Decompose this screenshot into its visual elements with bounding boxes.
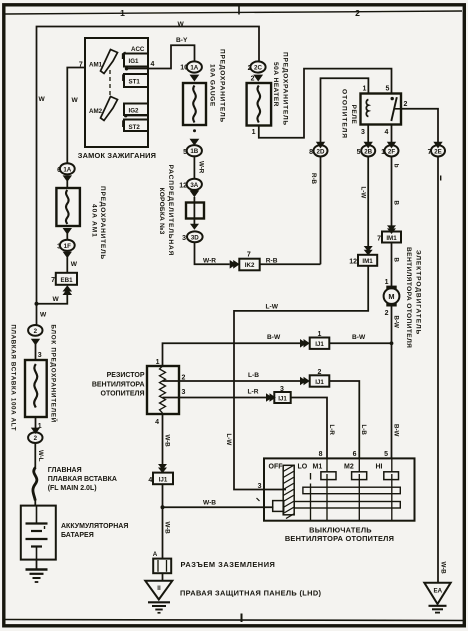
svg-text:1: 1 <box>156 359 160 366</box>
svg-text:3: 3 <box>182 235 186 242</box>
connector 1B oval <box>187 145 202 156</box>
battery box <box>21 506 56 560</box>
svg-text:2: 2 <box>385 310 389 317</box>
wire to ground II <box>162 573 164 581</box>
wire IM1 to motor <box>391 243 393 288</box>
arrow into IJ1 3 <box>266 393 272 402</box>
wire motor to junction <box>391 307 393 344</box>
wire FL to battery <box>34 499 36 506</box>
box ST1 <box>124 74 148 87</box>
connector 2F oval <box>385 145 399 156</box>
wire resistor pin 2 to IJ1 2 <box>163 380 301 382</box>
svg-text:6: 6 <box>353 451 357 458</box>
connector wedge below 2 upper <box>31 339 40 346</box>
wire resistor pin 1 to IJ1 1 <box>163 343 301 366</box>
fuse 50A HEATER box <box>247 83 272 126</box>
svg-text:ВЕНТИЛЯТОРА ОТОПИТЕЛЯ: ВЕНТИЛЯТОРА ОТОПИТЕЛЯ <box>285 534 394 543</box>
wire L-W 2B to IM1 <box>367 157 369 247</box>
svg-text:БЛОК ПРЕДОХРАНИТЕЛЕЙ: БЛОК ПРЕДОХРАНИТЕЛЕЙ <box>50 325 58 424</box>
relay contact <box>391 97 402 121</box>
svg-text:W: W <box>39 96 46 103</box>
svg-text:HI: HI <box>376 464 383 471</box>
grid tick top <box>238 4 240 15</box>
fuse 100A ALT box <box>25 360 47 417</box>
svg-text:W-B: W-B <box>163 522 170 535</box>
connector wedge above 2D <box>316 142 325 149</box>
svg-text:3: 3 <box>258 483 262 490</box>
junction connector IJ1 no3 <box>274 392 290 403</box>
wire 1B to 3A <box>193 156 195 179</box>
svg-text:L-R: L-R <box>328 425 335 436</box>
wire 1F to EB1 <box>66 257 68 273</box>
svg-text:2: 2 <box>404 101 408 108</box>
relay coil <box>366 100 368 117</box>
svg-text:1: 1 <box>120 8 125 18</box>
svg-text:R-B: R-B <box>310 173 317 185</box>
connector wedge below 3A <box>190 190 200 197</box>
connector 2C oval <box>250 61 265 72</box>
svg-text:ПЛАВКАЯ ВСТАВКА 100А ALT: ПЛАВКАЯ ВСТАВКА 100А ALT <box>10 325 17 432</box>
svg-text:12: 12 <box>349 259 357 266</box>
svg-text:ГЛАВНАЯ: ГЛАВНАЯ <box>48 467 82 474</box>
ignition mechanical link dashed <box>109 70 111 98</box>
svg-text:B-W: B-W <box>392 316 399 329</box>
contact dot IG1 <box>125 67 128 70</box>
svg-text:IJ1: IJ1 <box>278 395 287 402</box>
svg-text:4: 4 <box>151 61 155 68</box>
junction connector IM1 upper <box>382 232 401 243</box>
svg-text:W: W <box>72 97 79 104</box>
arrow down into IJ1 4 <box>158 464 167 470</box>
switch selector ticks <box>311 474 392 521</box>
svg-text:M2: M2 <box>344 464 354 471</box>
switch contact M1 <box>321 458 336 479</box>
svg-text:2E: 2E <box>434 148 442 155</box>
junction connector IJ1 no2 <box>310 375 330 386</box>
switch input contact rect <box>273 501 284 512</box>
wire resistor pin 3 to IJ1 3 <box>163 397 267 399</box>
ground connector EB1 box <box>56 273 77 285</box>
svg-text:L-W: L-W <box>360 187 367 199</box>
ground II bars <box>148 602 170 613</box>
svg-text:1: 1 <box>385 279 389 286</box>
svg-text:ЭЛЕКТРОДВИГАТЕЛЬ: ЭЛЕКТРОДВИГАТЕЛЬ <box>415 250 422 335</box>
blower switch box <box>264 458 415 520</box>
svg-text:4: 4 <box>155 419 159 426</box>
switch bar upper <box>303 487 400 494</box>
connector wedge below 1A <box>190 75 200 82</box>
svg-text:3: 3 <box>361 129 365 136</box>
svg-text:B-W: B-W <box>267 334 281 341</box>
svg-text:ACC: ACC <box>131 46 145 53</box>
svg-text:IM1: IM1 <box>386 235 397 242</box>
wire relay pin 4 down <box>391 125 393 146</box>
box IG2 <box>124 104 148 116</box>
connector wedge above 2E <box>433 142 442 149</box>
wire 100A to connector 2 lower <box>35 417 37 428</box>
svg-text:L-W: L-W <box>266 304 279 311</box>
svg-text:10A GAUGE: 10A GAUGE <box>209 64 216 107</box>
svg-text:АККУМУЛЯТОРНАЯ: АККУМУЛЯТОРНАЯ <box>61 523 128 530</box>
svg-text:7: 7 <box>79 62 83 69</box>
switch contact M2 <box>352 458 367 479</box>
svg-text:IJ1: IJ1 <box>315 379 324 386</box>
svg-text:W-B: W-B <box>203 500 216 507</box>
arrow down into IM1 7 <box>387 225 396 231</box>
wire R-B 2D down <box>320 157 322 265</box>
wire W-R from 3D to IK2 <box>195 242 230 264</box>
svg-text:ВЕНТИЛЯТОРА: ВЕНТИЛЯТОРА <box>92 382 145 389</box>
heater relay box <box>361 94 402 125</box>
connector 1F oval <box>60 240 75 251</box>
svg-text:IK2: IK2 <box>245 262 255 269</box>
svg-text:M: M <box>388 292 394 301</box>
svg-text:1A: 1A <box>190 65 198 72</box>
svg-text:ПРАВАЯ ЗАЩИТНАЯ ПАНЕЛЬ (LHD): ПРАВАЯ ЗАЩИТНАЯ ПАНЕЛЬ (LHD) <box>180 589 322 598</box>
svg-text:ST1: ST1 <box>129 79 141 86</box>
wire L-W IM1 to switch pin 3 <box>234 266 368 490</box>
svg-text:2: 2 <box>34 435 38 442</box>
wire battery to ground <box>36 560 38 570</box>
junction connector IJ1 no4 <box>153 473 173 485</box>
contact dot IG2 <box>124 114 127 117</box>
connector wedge above 1B <box>190 139 200 146</box>
svg-text:1: 1 <box>363 86 367 93</box>
grid tick bottom <box>241 614 243 623</box>
contact hook ST1 <box>123 74 126 82</box>
svg-text:1A: 1A <box>63 166 71 173</box>
connector 2E oval <box>431 145 445 156</box>
connector 2B oval <box>361 145 375 156</box>
switch pin 3 wire inside <box>264 489 286 491</box>
svg-text:ПЛАВКАЯ ВСТАВКА: ПЛАВКАЯ ВСТАВКА <box>48 476 117 483</box>
svg-text:B-W: B-W <box>392 424 399 437</box>
svg-text:IM1: IM1 <box>362 258 373 265</box>
svg-text:2C: 2C <box>254 65 262 72</box>
svg-text:L-B: L-B <box>248 372 259 379</box>
svg-text:W-L: W-L <box>37 450 44 462</box>
box ST2 <box>124 120 148 132</box>
wire into 40A fuse <box>66 181 68 188</box>
fusible link caption <box>48 467 117 492</box>
junction connector IM1 lower <box>358 255 377 266</box>
svg-text:БАТАРЕЯ: БАТАРЕЯ <box>61 532 94 539</box>
svg-text:8: 8 <box>319 451 323 458</box>
ignition lever 1 <box>101 50 118 74</box>
svg-text:РАЗЪЕМ ЗАЗЕМЛЕНИЯ: РАЗЪЕМ ЗАЗЕМЛЕНИЯ <box>181 560 276 569</box>
ground battery <box>26 570 48 583</box>
wire relay pin 1 from node 2D riser <box>321 78 369 145</box>
switch bar lower <box>294 502 400 509</box>
svg-text:ПРЕДОХРАНИТЕЛЬ: ПРЕДОХРАНИТЕЛЬ <box>219 49 226 123</box>
contact wire IG2 <box>126 115 148 117</box>
wire bus to connector 2 top <box>36 304 38 326</box>
svg-text:IG2: IG2 <box>129 108 140 115</box>
svg-text:R-B: R-B <box>266 258 278 265</box>
box IG1 <box>124 54 148 67</box>
resistor caption <box>92 372 145 398</box>
arrow into IJ1 1 <box>300 339 306 348</box>
arrow into IJ1 2 <box>300 377 306 386</box>
connector wedge below 1A left <box>63 175 72 182</box>
ground EA bars <box>429 606 447 613</box>
svg-text:4: 4 <box>385 129 389 136</box>
svg-text:3D: 3D <box>191 234 199 241</box>
wire W to ignition AM1 <box>67 68 85 164</box>
svg-text:7: 7 <box>377 236 381 243</box>
svg-text:W-R: W-R <box>198 161 205 174</box>
svg-text:1F: 1F <box>64 243 71 250</box>
svg-text:ОТОПИТЕЛЯ: ОТОПИТЕЛЯ <box>101 391 145 398</box>
svg-text:IG1: IG1 <box>129 58 140 65</box>
svg-text:IJ1: IJ1 <box>315 341 324 348</box>
svg-text:7: 7 <box>51 277 55 284</box>
switch caption <box>285 526 394 544</box>
svg-text:W: W <box>178 21 185 28</box>
arrow up below EB1 <box>63 285 73 291</box>
ground EA triangle <box>424 583 450 604</box>
svg-text:W: W <box>71 261 78 268</box>
connector wedge below 2C <box>253 75 263 82</box>
svg-text:IJ1: IJ1 <box>159 476 168 483</box>
ground connector box <box>153 559 171 574</box>
wire EB1 down to left bus junction <box>37 292 68 304</box>
svg-text:4: 4 <box>148 477 152 484</box>
wire to 1F <box>66 233 68 240</box>
svg-text:B: B <box>392 258 399 263</box>
svg-text:8: 8 <box>309 149 313 156</box>
junction connector IJ1 no1 <box>310 338 330 349</box>
wire W top bus <box>37 27 260 306</box>
blower resistor box <box>147 366 179 414</box>
arrow into IK2 <box>230 260 237 269</box>
svg-text:ОТОПИТЕЛЯ: ОТОПИТЕЛЯ <box>341 89 348 139</box>
svg-text:ПРЕДОХРАНИТЕЛЬ: ПРЕДОХРАНИТЕЛЬ <box>99 186 106 260</box>
svg-text:5: 5 <box>357 149 361 156</box>
wire W-B junction to switch <box>163 506 274 508</box>
svg-text:2F: 2F <box>388 148 395 155</box>
wire relay pin 2 to 2E <box>401 109 438 146</box>
svg-text:L-R: L-R <box>248 389 259 396</box>
svg-text:M1: M1 <box>313 464 323 471</box>
svg-text:ПРЕДОХРАНИТЕЛЬ: ПРЕДОХРАНИТЕЛЬ <box>282 52 289 126</box>
wire IJ1 2 to switch pin 6 <box>329 381 359 458</box>
ignition switch box <box>85 38 148 147</box>
svg-text:B-Y: B-Y <box>176 37 188 44</box>
fusible link FL MAIN wave <box>33 468 37 501</box>
svg-text:2: 2 <box>251 76 255 83</box>
fuse 10A GAUGE box <box>183 83 206 125</box>
junction dot W-B <box>161 505 165 509</box>
connector wedge above 2B <box>364 142 373 149</box>
arrow down into IM1 12 <box>364 246 373 252</box>
switch pin 3 tick <box>257 498 260 501</box>
wire B-Y from IG1 to connector 1A <box>127 45 195 68</box>
switch contact stub LO <box>310 473 312 480</box>
wire IJ1 1 to B-W junction <box>329 342 391 344</box>
wire 50A fuse to relay pin 5 <box>259 69 392 138</box>
distribution box no.3 rect <box>186 203 204 219</box>
svg-text:3: 3 <box>182 389 186 396</box>
svg-text:1: 1 <box>252 129 256 136</box>
svg-text:B: B <box>392 201 399 206</box>
connector 1A left oval <box>60 163 75 174</box>
wire IJ1 4 down to ground junction <box>162 484 164 558</box>
battery plates <box>26 506 48 560</box>
connector 2D oval <box>314 145 328 156</box>
svg-text:L-W: L-W <box>225 434 232 446</box>
svg-text:LO: LO <box>298 464 308 471</box>
svg-text:ST2: ST2 <box>129 124 141 131</box>
contact hook ACC <box>123 52 126 59</box>
junction dot below GAUGE fuse <box>193 129 196 132</box>
connector wedge below 1F <box>63 252 72 259</box>
svg-text:EA: EA <box>433 588 442 595</box>
junction connector IK2 <box>239 259 259 271</box>
wire relay pin 3 down <box>367 125 369 146</box>
svg-text:РЕЗИСТОР: РЕЗИСТОР <box>107 372 145 379</box>
junction dot B-W <box>390 341 394 345</box>
connector 3D oval <box>187 231 203 242</box>
svg-text:2: 2 <box>34 328 38 335</box>
svg-text:7: 7 <box>247 252 251 259</box>
connector wedge above 2 lower <box>31 428 40 434</box>
switch slider hatched <box>283 465 294 519</box>
svg-text:W-R: W-R <box>203 258 216 265</box>
wire through distribution box <box>193 197 195 224</box>
connector wedge below 40A fuse <box>63 228 72 235</box>
svg-text:КОРОБКА №3: КОРОБКА №3 <box>158 188 165 235</box>
svg-text:40A AM1: 40A AM1 <box>91 204 98 238</box>
svg-text:EB1: EB1 <box>60 277 73 284</box>
ignition lever 2 <box>101 97 118 121</box>
svg-text:B-W: B-W <box>352 334 366 341</box>
junction dot left bus <box>35 302 39 306</box>
svg-text:РАСПРЕДЕЛИТЕЛЬНАЯ: РАСПРЕДЕЛИТЕЛЬНАЯ <box>167 165 174 257</box>
ground II triangle <box>145 581 172 600</box>
wire to 100A fuse <box>35 344 37 360</box>
connector 2 upper oval <box>28 325 42 336</box>
svg-text:2B: 2B <box>364 148 372 155</box>
svg-text:3A: 3A <box>190 182 198 189</box>
connector 3A oval <box>187 179 202 190</box>
svg-text:L-B: L-B <box>360 425 367 436</box>
blower motor M <box>384 286 400 307</box>
wire 2 to fusible link <box>34 443 36 469</box>
svg-text:РЕЛЕ: РЕЛЕ <box>350 105 357 125</box>
battery caption <box>61 523 128 539</box>
wire R-B from IK2 to node under 2D <box>260 263 321 265</box>
wire IJ1 3 to switch pin 8 <box>291 398 327 459</box>
wire junction to switch pin 5 <box>391 343 393 458</box>
svg-text:OFF: OFF <box>269 464 284 471</box>
connector 1A oval <box>187 61 202 72</box>
svg-text:ЗАМОК ЗАЖИГАНИЯ: ЗАМОК ЗАЖИГАНИЯ <box>78 151 156 160</box>
svg-text:W-B: W-B <box>439 562 446 575</box>
svg-text:AM2: AM2 <box>89 108 103 115</box>
contact hook ST2 <box>123 120 126 128</box>
connector wedge above 2F <box>387 142 396 149</box>
svg-text:2D: 2D <box>317 148 325 155</box>
svg-text:(FL MAIN 2.0L): (FL MAIN 2.0L) <box>48 485 97 492</box>
svg-text:5: 5 <box>386 86 390 93</box>
svg-text:W: W <box>53 296 60 303</box>
svg-text:b: b <box>392 164 399 168</box>
fuse 40A AM1 box <box>56 188 80 226</box>
svg-text:ВЕНТИЛЯТОРА ОТОПИТЕЛЯ: ВЕНТИЛЯТОРА ОТОПИТЕЛЯ <box>405 247 412 348</box>
svg-text:5: 5 <box>384 451 388 458</box>
switch contact HI <box>384 458 399 479</box>
svg-text:3: 3 <box>38 352 42 359</box>
svg-text:A: A <box>153 551 158 558</box>
connector 2 lower oval <box>28 432 42 443</box>
svg-text:W: W <box>40 312 47 319</box>
svg-text:W-B: W-B <box>163 435 170 448</box>
svg-text:II: II <box>157 585 161 592</box>
svg-text:1B: 1B <box>190 148 198 155</box>
connector wedge above 3D <box>190 224 199 230</box>
tick on 2E wire <box>440 176 442 181</box>
svg-text:2: 2 <box>355 8 360 18</box>
wire 2F down to IM1 7 <box>391 157 393 227</box>
svg-text:50A HEATER: 50A HEATER <box>272 62 279 107</box>
svg-text:AM1: AM1 <box>89 62 103 69</box>
wire resistor pin 4 down <box>162 414 164 465</box>
wire 2E down to EA <box>437 157 439 583</box>
